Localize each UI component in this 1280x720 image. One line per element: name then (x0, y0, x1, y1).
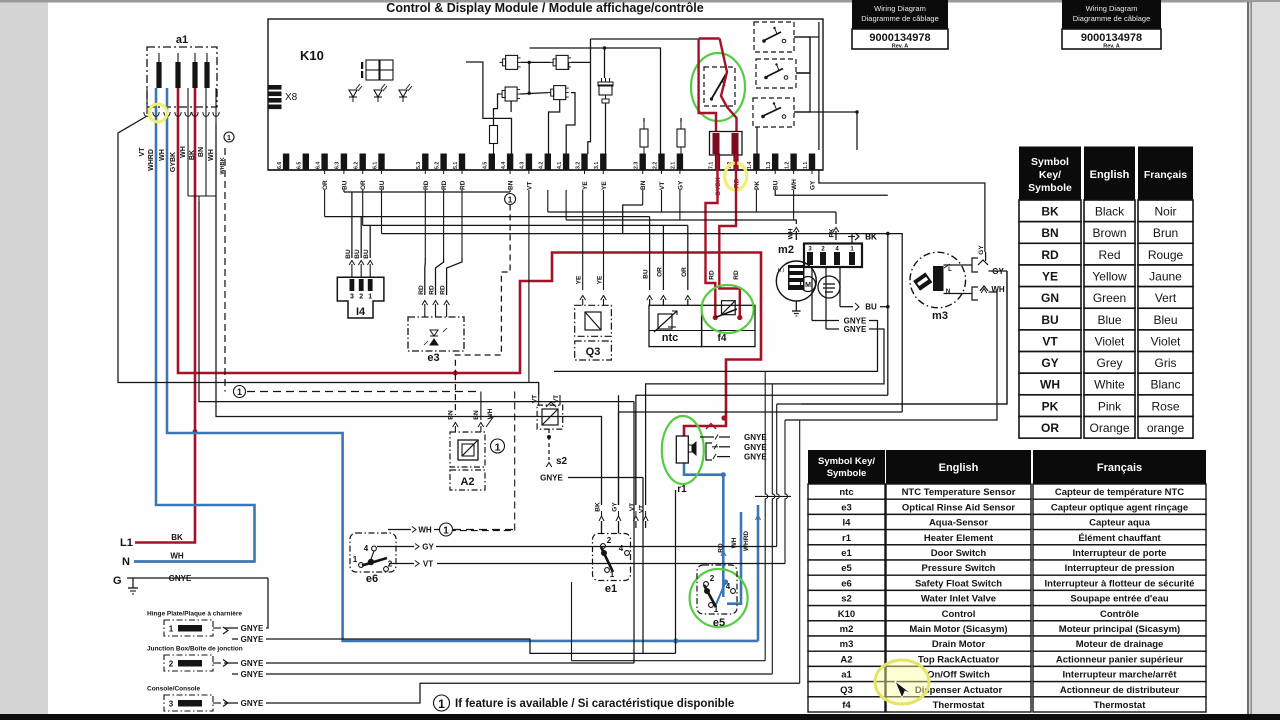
svg-text:a1: a1 (841, 670, 852, 681)
svg-text:Hinge Plate/Plaque à charnière: Hinge Plate/Plaque à charnière (147, 611, 242, 618)
svg-text:Grey: Grey (1096, 356, 1122, 370)
svg-text:Green: Green (1093, 291, 1126, 305)
svg-text:Thermostat: Thermostat (1094, 700, 1147, 711)
svg-text:VT: VT (532, 395, 539, 403)
svg-text:A2: A2 (840, 654, 852, 665)
svg-text:GNYE: GNYE (241, 635, 264, 644)
svg-text:f4: f4 (842, 700, 851, 711)
svg-text:OR: OR (656, 267, 663, 277)
svg-text:RD: RD (440, 285, 447, 295)
svg-text:K10: K10 (838, 609, 855, 620)
svg-text:Yellow: Yellow (1092, 269, 1127, 283)
svg-text:OR: OR (360, 180, 367, 190)
svg-text:PK: PK (754, 181, 761, 190)
svg-text:VT: VT (659, 182, 666, 190)
svg-text:BK: BK (1041, 205, 1059, 219)
svg-text:r1: r1 (677, 484, 687, 495)
svg-text:Interrupteur marche/arrêt: Interrupteur marche/arrêt (1062, 670, 1177, 681)
svg-text:GNYE: GNYE (844, 325, 867, 334)
svg-text:OR: OR (681, 267, 688, 277)
svg-text:BK: BK (865, 233, 877, 242)
svg-text:BU: BU (643, 269, 650, 279)
svg-text:BU: BU (865, 303, 877, 312)
svg-text:I4: I4 (843, 518, 852, 529)
svg-text:Moteur de drainage: Moteur de drainage (1076, 639, 1164, 650)
svg-text:On/Off Switch: On/Off Switch (927, 670, 990, 681)
svg-text:1.1: 1.1 (803, 162, 809, 169)
svg-text:Top RackActuator: Top RackActuator (918, 654, 999, 665)
svg-text:L: L (948, 267, 952, 273)
svg-text:English: English (939, 462, 979, 474)
svg-text:RD: RD (460, 180, 467, 190)
svg-text:Rev. A: Rev. A (892, 44, 909, 50)
svg-text:Français: Français (1144, 169, 1187, 181)
svg-text:2: 2 (169, 660, 174, 669)
svg-text:4.2: 4.2 (539, 162, 545, 169)
svg-text:m2: m2 (840, 624, 854, 635)
svg-text:Brun: Brun (1153, 226, 1178, 240)
svg-text:2: 2 (359, 293, 363, 300)
svg-text:M: M (805, 282, 811, 289)
svg-text:Interrupteur à flotteur de séc: Interrupteur à flotteur de sécurité (1045, 578, 1195, 589)
svg-text:BU: BU (363, 249, 370, 259)
svg-text:6.2: 6.2 (354, 162, 360, 169)
svg-text:4.5: 4.5 (483, 162, 489, 169)
svg-text:6.1: 6.1 (372, 162, 378, 169)
svg-text:Pressure Switch: Pressure Switch (922, 563, 996, 574)
svg-text:4.1: 4.1 (557, 162, 563, 169)
svg-text:Soupape entrée d'eau: Soupape entrée d'eau (1070, 594, 1169, 605)
svg-text:1: 1 (438, 697, 445, 711)
svg-text:BU: BU (773, 180, 780, 190)
svg-text:Contrôle: Contrôle (1100, 609, 1139, 620)
svg-text:WH: WH (731, 537, 738, 548)
svg-text:3: 3 (350, 293, 354, 300)
svg-text:2.1: 2.1 (671, 162, 677, 169)
svg-text:GY: GY (612, 502, 619, 512)
svg-text:X8: X8 (285, 92, 298, 103)
svg-text:Jaune: Jaune (1149, 269, 1182, 283)
svg-text:Gris: Gris (1155, 356, 1177, 370)
svg-text:Symbole: Symbole (827, 468, 867, 479)
svg-text:e6: e6 (841, 578, 852, 589)
svg-text:4: 4 (619, 544, 624, 553)
svg-text:1: 1 (508, 195, 513, 204)
svg-text:G: G (113, 575, 122, 587)
svg-text:a1: a1 (176, 34, 188, 46)
svg-text:Black: Black (1095, 205, 1125, 219)
svg-text:GNYE: GNYE (744, 433, 767, 442)
svg-text:6.5: 6.5 (297, 162, 303, 169)
svg-text:Violet: Violet (1151, 334, 1181, 348)
svg-text:1.2: 1.2 (784, 162, 790, 169)
svg-text:Français: Français (1097, 462, 1142, 474)
svg-text:White: White (1094, 378, 1125, 392)
svg-text:WH: WH (991, 285, 1005, 294)
svg-text:WH: WH (170, 552, 184, 561)
svg-text:Console/Console: Console/Console (147, 686, 200, 693)
svg-text:WH: WH (791, 179, 798, 190)
svg-text:Q3: Q3 (840, 685, 853, 696)
svg-text:YE: YE (576, 275, 583, 284)
svg-text:Optical Rinse Aid Sensor: Optical Rinse Aid Sensor (902, 502, 1015, 513)
svg-text:Red: Red (1098, 248, 1120, 262)
svg-text:GNYE: GNYE (744, 443, 767, 452)
svg-text:1.3: 1.3 (766, 162, 772, 169)
svg-text:OR: OR (1041, 421, 1059, 435)
svg-text:6.3: 6.3 (335, 162, 341, 169)
svg-text:RD: RD (429, 285, 436, 295)
svg-text:GY: GY (810, 180, 817, 190)
svg-text:Violet: Violet (1095, 334, 1125, 348)
svg-text:ntc: ntc (662, 332, 679, 344)
svg-text:Key/: Key/ (1039, 169, 1061, 181)
svg-text:Rouge: Rouge (1148, 248, 1184, 262)
svg-text:GY: GY (1041, 356, 1058, 370)
svg-text:WHRD: WHRD (148, 149, 155, 171)
svg-text:Rev. A: Rev. A (1103, 44, 1120, 50)
svg-text:YE: YE (1042, 269, 1058, 283)
svg-text:Diagramme de câblage: Diagramme de câblage (1073, 14, 1151, 23)
svg-text:Diagramme de câblage: Diagramme de câblage (861, 14, 939, 23)
svg-text:RD: RD (708, 270, 715, 280)
svg-text:2: 2 (607, 536, 612, 545)
svg-text:9000134978: 9000134978 (869, 32, 930, 44)
svg-text:GY: GY (978, 245, 985, 255)
svg-text:4: 4 (364, 544, 369, 553)
svg-text:VT: VT (553, 395, 560, 403)
svg-text:1: 1 (237, 387, 242, 397)
svg-text:N: N (122, 556, 130, 568)
svg-text:VT: VT (1042, 334, 1058, 348)
svg-text:BU: BU (379, 180, 386, 190)
svg-text:A2: A2 (460, 476, 474, 488)
svg-text:1: 1 (353, 555, 358, 564)
svg-text:OR: OR (322, 180, 329, 190)
svg-text:Symbole: Symbole (1028, 182, 1072, 194)
svg-text:m3: m3 (932, 310, 948, 322)
svg-text:Vert: Vert (1155, 291, 1177, 305)
svg-text:Moteur principal (Sicasym): Moteur principal (Sicasym) (1059, 624, 1180, 635)
svg-text:orange: orange (1147, 421, 1185, 435)
svg-text:4.4: 4.4 (501, 162, 507, 169)
svg-text:RD: RD (733, 270, 740, 280)
svg-text:Orange: Orange (1089, 421, 1129, 435)
svg-text:Control & Display Module / Mod: Control & Display Module / Module affich… (386, 1, 703, 15)
svg-text:VT: VT (139, 147, 146, 157)
svg-text:I4: I4 (356, 306, 366, 318)
svg-text:Interrupteur de pression: Interrupteur de pression (1065, 563, 1175, 574)
svg-text:VT: VT (526, 182, 533, 190)
svg-text:GNYE: GNYE (241, 659, 264, 668)
svg-text:BK: BK (189, 150, 196, 160)
svg-text:Interrupteur de porte: Interrupteur de porte (1073, 548, 1167, 559)
svg-text:4: 4 (726, 582, 731, 591)
svg-text:Brown: Brown (1092, 226, 1126, 240)
svg-text:YE: YE (582, 181, 589, 190)
svg-text:WH: WH (180, 146, 187, 158)
svg-text:Élément chauffant: Élément chauffant (1078, 533, 1161, 544)
svg-text:BU: BU (1041, 313, 1058, 327)
svg-text:Safety Float Switch: Safety Float Switch (915, 578, 1002, 589)
svg-text:6.6: 6.6 (277, 162, 283, 169)
svg-text:WH: WH (788, 228, 795, 239)
svg-text:GY: GY (422, 543, 434, 552)
svg-text:Pink: Pink (1098, 399, 1122, 413)
svg-text:GY: GY (677, 180, 684, 190)
svg-text:Actionneur panier supérieur: Actionneur panier supérieur (1056, 654, 1184, 665)
svg-text:m3: m3 (840, 639, 854, 650)
svg-text:e6: e6 (366, 573, 378, 585)
svg-text:Capteur aqua: Capteur aqua (1089, 518, 1150, 529)
svg-text:WHBK: WHBK (220, 157, 226, 174)
svg-text:BK: BK (595, 502, 602, 512)
svg-text:Wiring Diagram: Wiring Diagram (874, 4, 926, 13)
svg-text:Symbol Key/: Symbol Key/ (818, 456, 875, 467)
svg-text:s2: s2 (556, 456, 568, 467)
svg-text:2: 2 (710, 574, 715, 583)
svg-text:Heater Element: Heater Element (924, 533, 994, 544)
svg-text:1: 1 (495, 441, 501, 453)
svg-text:WHRD: WHRD (743, 531, 750, 552)
svg-text:WH: WH (159, 149, 166, 161)
svg-text:9000134978: 9000134978 (1081, 32, 1142, 44)
svg-text:Door Switch: Door Switch (931, 548, 987, 559)
svg-text:3: 3 (169, 700, 174, 709)
svg-text:f4: f4 (718, 333, 727, 344)
svg-text:ntc: ntc (839, 487, 853, 498)
svg-text:Actionneur de distributeur: Actionneur de distributeur (1060, 685, 1180, 696)
svg-text:PK: PK (1042, 399, 1059, 413)
svg-text:5.1: 5.1 (453, 162, 459, 169)
svg-text:Bleu: Bleu (1153, 313, 1177, 327)
svg-text:7.1: 7.1 (708, 162, 714, 169)
svg-text:Thermostat: Thermostat (933, 700, 986, 711)
svg-text:GNYE: GNYE (241, 624, 264, 633)
svg-text:Junction Box/Boîte de jonction: Junction Box/Boîte de jonction (147, 646, 243, 653)
svg-text:BU: BU (345, 249, 352, 259)
svg-text:VT: VT (423, 560, 433, 569)
svg-text:Wiring Diagram: Wiring Diagram (1086, 4, 1138, 13)
svg-text:Main Motor (Sicasym): Main Motor (Sicasym) (909, 624, 1007, 635)
svg-text:e3: e3 (427, 352, 439, 364)
svg-text:WH: WH (208, 149, 215, 161)
svg-text:Blanc: Blanc (1150, 378, 1180, 392)
svg-text:Rose: Rose (1151, 399, 1179, 413)
svg-text:Noir: Noir (1154, 205, 1176, 219)
svg-text:NTC Temperature Sensor: NTC Temperature Sensor (902, 487, 1016, 498)
svg-text:English: English (1090, 169, 1130, 181)
svg-text:2.2: 2.2 (652, 162, 658, 169)
svg-text:BU: BU (354, 249, 361, 259)
svg-text:2.3: 2.3 (634, 162, 640, 169)
svg-text:s2: s2 (841, 594, 852, 605)
svg-text:e5: e5 (713, 617, 725, 629)
svg-text:BN: BN (198, 147, 205, 157)
svg-text:e1: e1 (605, 583, 617, 595)
svg-text:1: 1 (443, 526, 449, 537)
svg-text:WH: WH (1040, 378, 1060, 392)
svg-text:VT: VT (629, 503, 636, 511)
svg-text:BN: BN (640, 180, 647, 190)
svg-text:3.1: 3.1 (594, 162, 600, 169)
svg-text:Water Inlet Valve: Water Inlet Valve (921, 594, 996, 605)
svg-text:GNYE: GNYE (744, 453, 767, 462)
svg-text:GNYE: GNYE (241, 670, 264, 679)
svg-text:BN: BN (473, 410, 480, 420)
svg-text:RD: RD (1041, 248, 1059, 262)
svg-text:GNYE: GNYE (241, 699, 264, 708)
svg-text:Capteur optique agent rinçage: Capteur optique agent rinçage (1051, 502, 1188, 513)
svg-text:e1: e1 (841, 548, 852, 559)
svg-text:RD: RD (418, 285, 425, 295)
svg-text:GN: GN (1041, 291, 1059, 305)
svg-text:H.I: H.I (778, 268, 784, 274)
svg-text:Blue: Blue (1097, 313, 1121, 327)
svg-text:5.3: 5.3 (416, 162, 422, 169)
svg-text:YE: YE (597, 275, 604, 284)
svg-text:BU: BU (341, 180, 348, 190)
svg-text:BN: BN (1041, 226, 1058, 240)
svg-text:If feature is available / Si c: If feature is available / Si caractérist… (455, 698, 734, 710)
svg-text:L1: L1 (120, 537, 133, 549)
svg-text:5.2: 5.2 (434, 162, 440, 169)
svg-text:Symbol: Symbol (1031, 156, 1069, 168)
svg-text:m2: m2 (778, 244, 794, 256)
svg-text:1: 1 (368, 293, 372, 300)
svg-text:1.4: 1.4 (747, 162, 753, 169)
svg-text:BN: BN (448, 410, 455, 420)
svg-text:Control: Control (942, 609, 976, 620)
svg-text:Q3: Q3 (586, 346, 601, 358)
svg-text:Capteur de température NTC: Capteur de température NTC (1055, 487, 1184, 498)
svg-text:r1: r1 (842, 533, 852, 544)
svg-text:YE: YE (601, 181, 608, 190)
svg-text:VT: VT (639, 505, 646, 513)
svg-text:BK: BK (171, 533, 183, 542)
svg-text:WH: WH (418, 526, 432, 535)
svg-text:RD: RD (423, 180, 430, 190)
svg-text:GYBK: GYBK (170, 152, 177, 172)
svg-text:BN: BN (508, 180, 515, 190)
svg-text:Aqua-Sensor: Aqua-Sensor (929, 518, 988, 529)
svg-text:RD: RD (441, 180, 448, 190)
svg-text:1: 1 (169, 625, 174, 634)
svg-text:K10: K10 (300, 48, 324, 63)
svg-text:4.3: 4.3 (520, 162, 526, 169)
svg-text:e3: e3 (841, 502, 852, 513)
svg-text:1: 1 (227, 133, 231, 142)
svg-text:e5: e5 (841, 563, 852, 574)
svg-text:6.4: 6.4 (315, 162, 321, 169)
svg-text:Drain Motor: Drain Motor (932, 639, 986, 650)
svg-text:3.2: 3.2 (575, 162, 581, 169)
svg-text:GNYE: GNYE (540, 474, 563, 483)
